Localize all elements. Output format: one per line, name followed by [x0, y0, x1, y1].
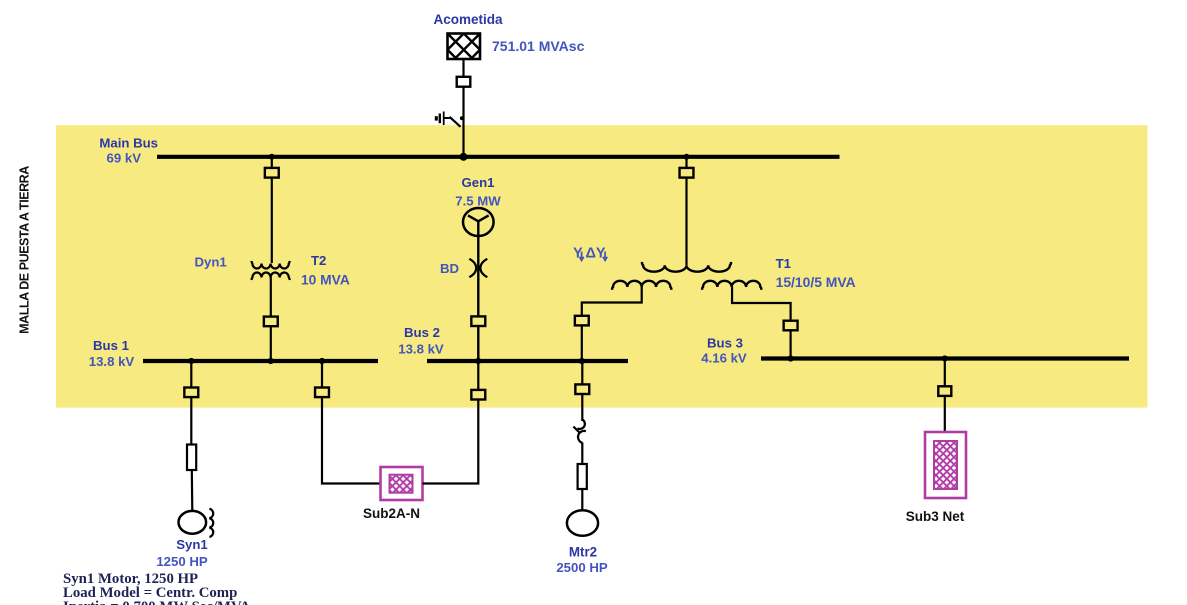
fuse F-Syn1: [187, 445, 196, 471]
svg-text:ΔY: ΔY: [586, 246, 606, 262]
wire T1 left secondary to bus2: [582, 287, 642, 361]
svg-text:T1: T1: [776, 256, 791, 271]
wire bus2 to cable (Mtr2 feeder): [581, 361, 583, 421]
wire bus1 to fuse (Syn1 feeder): [190, 361, 192, 445]
bus 2 (13.8 kV): [427, 359, 628, 363]
transformer T1 primary winding: [642, 262, 731, 272]
svg-text:Mtr2: Mtr2: [569, 545, 597, 560]
svg-text:Gen1: Gen1: [462, 175, 495, 190]
svg-text:Sub3 Net: Sub3 Net: [906, 509, 965, 524]
svg-text:Main Bus: Main Bus: [99, 136, 158, 151]
wire Sub2A-N to bus2: [423, 361, 479, 484]
svg-text:69 kV: 69 kV: [107, 150, 142, 165]
svg-text:4.16 kV: 4.16 kV: [701, 351, 747, 366]
fuse F-Mtr2: [578, 464, 587, 489]
breaker CB-T1-primary: [680, 168, 694, 178]
main bus (69 kV): [157, 155, 840, 159]
cable symbol on Mtr2 feeder: [573, 420, 586, 443]
node bus1 / tie junction: [319, 358, 325, 364]
network box Sub3 Net: [925, 432, 966, 498]
Syn1 damper squiggle: [209, 509, 213, 537]
svg-text:Bus 1: Bus 1: [93, 338, 129, 353]
svg-text:751.01 MVAsc: 751.01 MVAsc: [492, 38, 585, 54]
wire Gen1 to bus2: [477, 236, 479, 361]
bus 3 (4.16 kV): [761, 356, 1129, 360]
annotation text block for Syn1: [63, 571, 251, 605]
network box Sub2A-N: [381, 467, 423, 500]
svg-text:Acometida: Acometida: [433, 12, 503, 27]
label winding config Y-D-Y: [573, 246, 607, 262]
ground mesh highlighted region (Malla de Puesta a Tierra): [56, 125, 1148, 407]
svg-text:BD: BD: [440, 261, 459, 276]
svg-text:13.8 kV: 13.8 kV: [398, 342, 444, 357]
breaker CB-T1-right: [784, 321, 798, 331]
breaker CB-Mtr2: [575, 384, 589, 394]
transformer T1 right secondary winding: [702, 281, 761, 290]
svg-text:T2: T2: [311, 253, 326, 268]
breaker CB-Sub3: [938, 386, 951, 396]
breaker CB-Gen1 (above bus2): [471, 316, 485, 326]
breaker BD glyphs: [469, 259, 487, 277]
synchronous motor Syn1 symbol: [179, 511, 207, 534]
wire bus1 down and across to Sub2A-N: [322, 361, 381, 484]
node bus2 / gen junction: [475, 358, 481, 364]
wire main bus to T2: [271, 157, 273, 263]
svg-text:10 MVA: 10 MVA: [301, 273, 350, 288]
svg-text:Sub2A-N: Sub2A-N: [363, 506, 420, 521]
wire fuse to Mtr2: [581, 489, 583, 511]
breaker CB-Syn1: [184, 388, 198, 398]
breaker CB-T2-primary: [265, 168, 279, 178]
svg-text:Bus 3: Bus 3: [707, 336, 743, 351]
node bus1 / T2 junction: [268, 358, 274, 364]
breaker CB-T2-secondary: [264, 317, 278, 327]
svg-text:1250 HP: 1250 HP: [156, 554, 208, 569]
transformer T2 primary winding: [252, 261, 290, 269]
breaker CB-utility: [457, 77, 471, 87]
breaker CB-tie-bus1: [315, 388, 329, 398]
svg-text:MALLA DE PUESTA A TIERRA: MALLA DE PUESTA A TIERRA: [18, 166, 32, 334]
svg-text:Inertia = 0.700 MW Sec/MVA: Inertia = 0.700 MW Sec/MVA: [63, 599, 251, 605]
svg-text:7.5 MW: 7.5 MW: [455, 194, 501, 209]
svg-text:15/10/5 MVA: 15/10/5 MVA: [776, 274, 856, 290]
transformer T2 secondary winding: [252, 273, 290, 281]
node main bus / T2 junction: [269, 154, 275, 160]
svg-text:Dyn1: Dyn1: [195, 255, 227, 270]
grounding switch on utility feeder: [436, 112, 463, 127]
wire T1 right secondary to bus3: [732, 287, 791, 359]
svg-text:Syn1: Syn1: [176, 537, 208, 552]
wire main bus to T1 primary: [685, 157, 687, 265]
node main bus / utility junction: [460, 153, 468, 161]
transformer T1 left secondary winding: [612, 281, 671, 290]
breaker CB-T1-left: [575, 316, 589, 326]
generator Gen1 symbol: [463, 208, 494, 236]
wire utility to main bus: [462, 59, 464, 157]
wire bus3 to Sub3 box: [944, 359, 946, 433]
breaker CB-tie-bus2: [471, 390, 485, 400]
node bus1 / Syn1 junction: [188, 358, 194, 364]
svg-text:Bus 2: Bus 2: [404, 325, 440, 340]
bus 1 (13.8 kV): [143, 359, 378, 363]
node main bus / T1 junction: [684, 154, 690, 160]
svg-text:2500 HP: 2500 HP: [556, 560, 608, 575]
induction motor Mtr2 symbol: [567, 510, 598, 536]
wire cable to fuse: [581, 442, 583, 464]
wire T2 to bus 1: [270, 278, 272, 362]
node bus3 / Sub3 junction: [942, 355, 948, 361]
svg-text:13.8 kV: 13.8 kV: [89, 354, 135, 369]
node bus2 / T1 junction: [579, 358, 585, 364]
node bus3 / T1 junction: [788, 355, 794, 361]
wire fuse to Syn1: [191, 470, 194, 511]
